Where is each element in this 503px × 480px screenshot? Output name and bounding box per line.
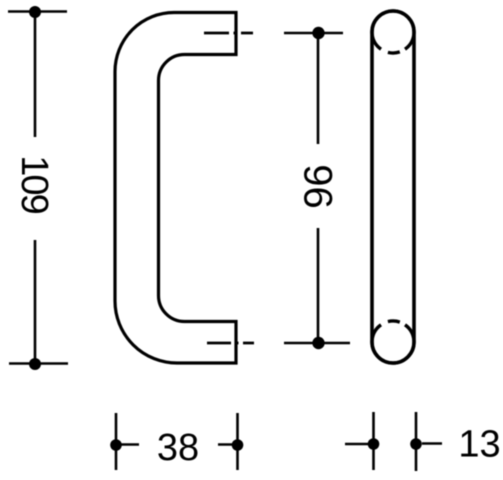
dim 38: right tick (236, 413, 239, 470)
dim 38: left stub (116, 443, 139, 446)
dim 38: right dot (232, 439, 244, 451)
svg-text:13: 13 (458, 424, 500, 466)
centerline top arm (dash-dot) (204, 32, 253, 35)
dim 13: left tick (372, 412, 375, 470)
dim 109: lower line segment (34, 240, 37, 364)
svg-text:96: 96 (295, 164, 339, 209)
dim 96: upper line segment (317, 33, 320, 144)
dim 13: right dot (410, 438, 422, 450)
svg-text:38: 38 (157, 427, 199, 469)
dim 96: top dot (312, 27, 324, 39)
top tube-end circle: solid upper arc (372, 11, 414, 49)
dim 109: top extension bar (8, 10, 67, 13)
dim 96: bottom dot (312, 337, 324, 349)
dim 96: bottom extension bar (284, 342, 350, 345)
dim 13: left dot (368, 438, 380, 450)
dim 38: left tick (115, 413, 118, 470)
handle front view (C-profile) (115, 13, 236, 364)
dim 109: top dot (29, 6, 41, 18)
bottom tube-end circle: solid lower arc (372, 325, 414, 363)
bottom tube-end circle: hidden dash at top (388, 321, 400, 322)
dim 38: right stub (218, 443, 238, 446)
dim 109: bottom dot (29, 358, 41, 370)
dim 96: top extension bar (284, 32, 343, 35)
dim 13: left stub (345, 443, 372, 446)
dim 13: right tick (415, 412, 418, 471)
dim 109: bottom extension bar (9, 362, 68, 365)
dim 13: right stub (422, 442, 442, 445)
svg-text:109: 109 (13, 155, 55, 213)
dim 109: upper line segment (34, 12, 37, 137)
top tube-end circle: hidden dash at bottom (388, 52, 400, 53)
dim 38: left dot (110, 439, 122, 451)
dim 96: lower line segment (317, 228, 320, 343)
side view stadium outline (372, 11, 414, 363)
centerline bottom arm (dash-dot) (207, 342, 254, 345)
